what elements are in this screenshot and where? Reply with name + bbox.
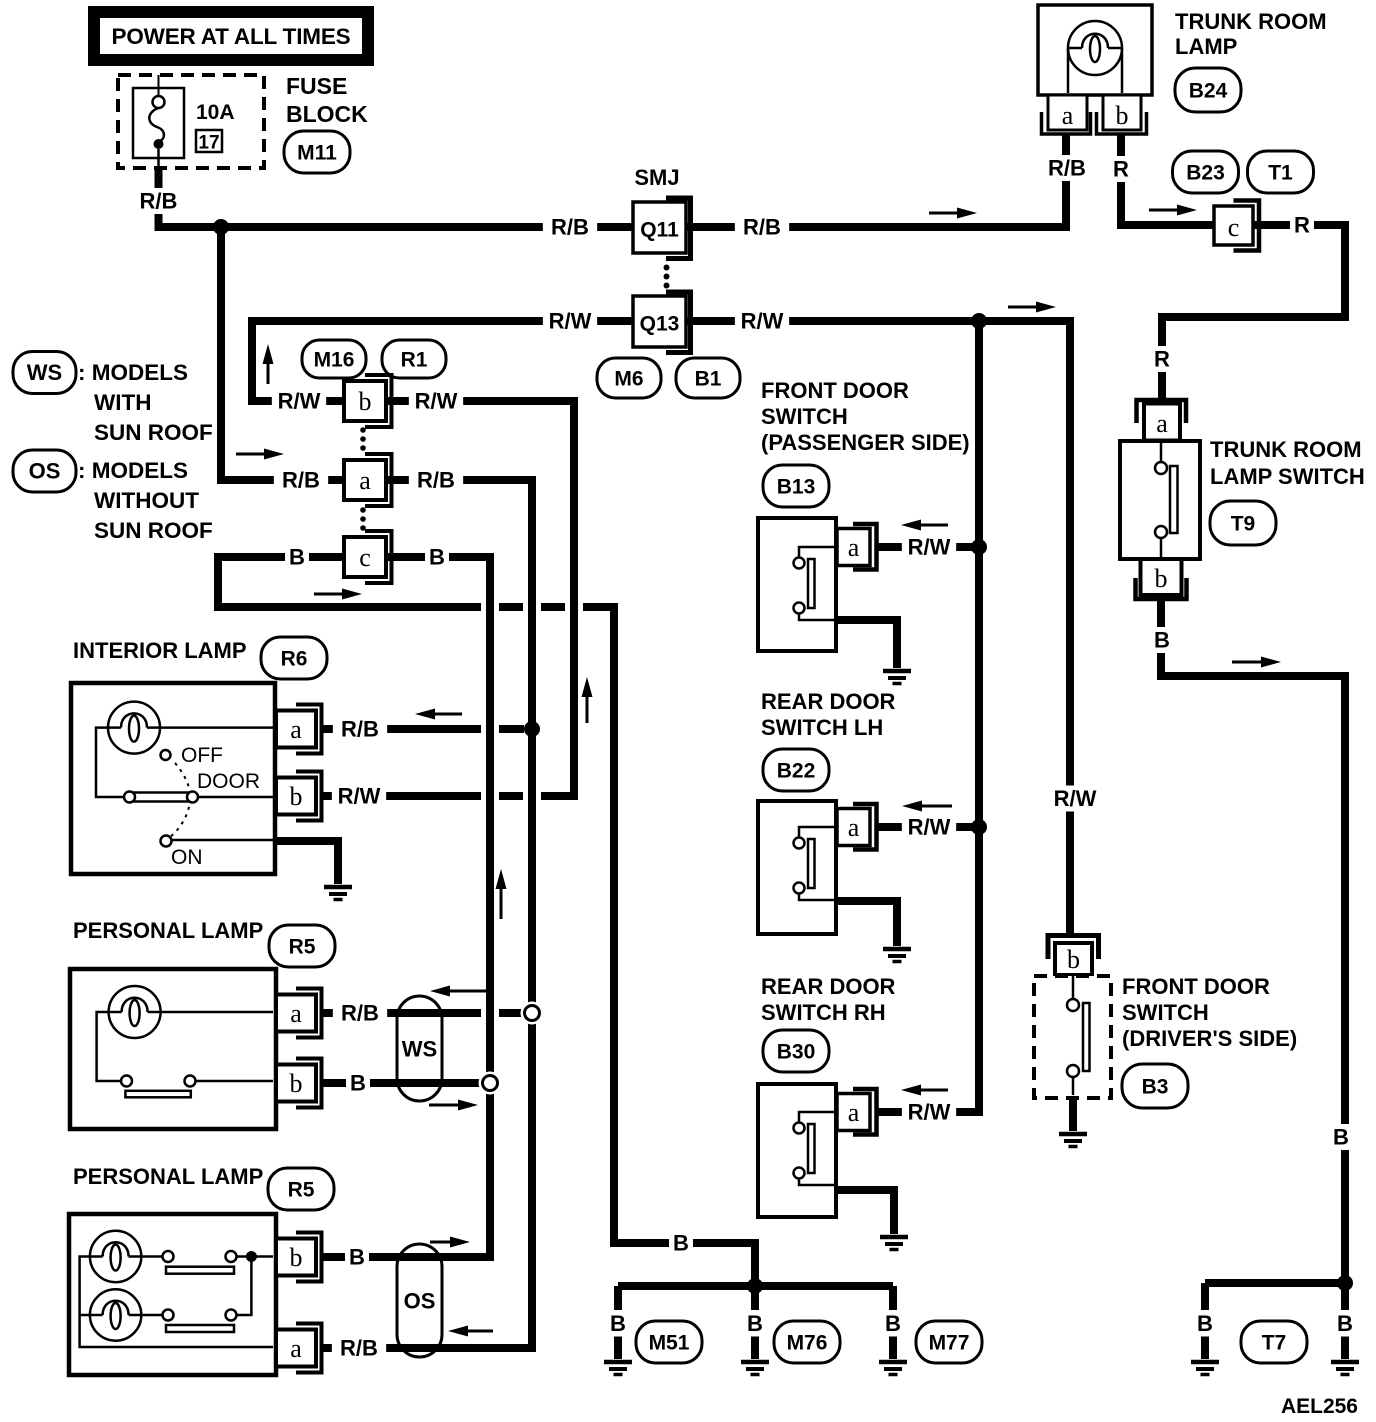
svg-text:FRONT DOOR: FRONT DOOR xyxy=(1122,974,1270,999)
svg-text:R/W: R/W xyxy=(741,309,784,334)
svg-text:a: a xyxy=(1156,409,1168,438)
svg-text:R/B: R/B xyxy=(417,468,455,493)
svg-text:WS: WS xyxy=(27,360,62,385)
svg-text:B: B xyxy=(673,1231,689,1256)
svg-text:a: a xyxy=(848,1098,860,1127)
svg-text:b: b xyxy=(290,1243,303,1272)
svg-text:ON: ON xyxy=(171,846,203,869)
svg-text:BLOCK: BLOCK xyxy=(286,101,368,127)
svg-text:SWITCH: SWITCH xyxy=(1122,1000,1209,1025)
svg-text:B23: B23 xyxy=(1186,162,1225,185)
svg-text:B13: B13 xyxy=(777,476,816,499)
svg-text:TRUNK ROOM: TRUNK ROOM xyxy=(1210,437,1362,462)
svg-text:M16: M16 xyxy=(314,349,355,372)
svg-text:(PASSENGER SIDE): (PASSENGER SIDE) xyxy=(761,430,970,455)
svg-text:M76: M76 xyxy=(787,1332,828,1355)
svg-text:M11: M11 xyxy=(297,142,337,165)
svg-text:OS: OS xyxy=(29,459,61,484)
svg-text:B: B xyxy=(747,1311,763,1336)
svg-text:R6: R6 xyxy=(281,648,308,671)
svg-text:B: B xyxy=(1337,1311,1353,1336)
svg-text:SWITCH: SWITCH xyxy=(761,404,848,429)
svg-text:: MODELS: : MODELS xyxy=(78,458,188,483)
svg-text:a: a xyxy=(359,466,371,495)
svg-text:B24: B24 xyxy=(1189,80,1228,103)
svg-text:b: b xyxy=(1116,101,1129,130)
svg-text:a: a xyxy=(1062,101,1074,130)
svg-text:B: B xyxy=(1197,1311,1213,1336)
svg-text:SUN ROOF: SUN ROOF xyxy=(94,518,213,543)
svg-text:R/W: R/W xyxy=(1054,786,1097,811)
svg-text:R/B: R/B xyxy=(340,1336,378,1361)
svg-text:M77: M77 xyxy=(929,1332,970,1355)
svg-text:B: B xyxy=(1154,628,1170,653)
svg-text:R/B: R/B xyxy=(341,717,379,742)
svg-text:a: a xyxy=(290,999,302,1028)
svg-text:R/W: R/W xyxy=(549,309,592,334)
svg-text:b: b xyxy=(359,387,372,416)
svg-text:17: 17 xyxy=(198,133,219,154)
svg-text:R: R xyxy=(1294,213,1310,238)
svg-text:M51: M51 xyxy=(649,1332,690,1355)
svg-text:B: B xyxy=(429,545,445,570)
svg-text:T7: T7 xyxy=(1262,1332,1287,1355)
svg-text:T9: T9 xyxy=(1231,513,1256,536)
svg-text:R/W: R/W xyxy=(278,389,321,414)
svg-text:R5: R5 xyxy=(288,1179,315,1202)
svg-text:WITHOUT: WITHOUT xyxy=(94,488,199,513)
svg-text:TRUNK ROOM: TRUNK ROOM xyxy=(1175,9,1327,34)
svg-text:FUSE: FUSE xyxy=(286,73,347,99)
svg-text:a: a xyxy=(290,1334,302,1363)
svg-text:INTERIOR LAMP: INTERIOR LAMP xyxy=(73,638,247,663)
svg-text:AEL256: AEL256 xyxy=(1281,1395,1358,1418)
svg-text:SMJ: SMJ xyxy=(634,165,679,190)
svg-text:LAMP: LAMP xyxy=(1175,34,1237,59)
svg-text:b: b xyxy=(290,1069,303,1098)
svg-text:R: R xyxy=(1113,157,1129,182)
svg-text:R/W: R/W xyxy=(415,389,458,414)
svg-text:10A: 10A xyxy=(196,101,235,124)
svg-text:POWER AT ALL TIMES: POWER AT ALL TIMES xyxy=(112,24,351,49)
svg-text:R5: R5 xyxy=(289,936,316,959)
svg-text:R/B: R/B xyxy=(743,215,781,240)
svg-text:Q11: Q11 xyxy=(640,219,679,242)
svg-text:M6: M6 xyxy=(614,368,643,391)
svg-text:DOOR: DOOR xyxy=(197,770,260,793)
svg-text:a: a xyxy=(290,715,302,744)
svg-text:R/B: R/B xyxy=(1048,156,1086,181)
svg-text:R/B: R/B xyxy=(140,189,178,214)
svg-text:B3: B3 xyxy=(1142,1076,1169,1099)
svg-text:B: B xyxy=(610,1311,626,1336)
svg-text:B: B xyxy=(350,1071,366,1096)
svg-text:SWITCH LH: SWITCH LH xyxy=(761,715,883,740)
svg-text:a: a xyxy=(848,813,860,842)
svg-text:b: b xyxy=(1067,945,1080,974)
svg-text:SWITCH RH: SWITCH RH xyxy=(761,1000,886,1025)
svg-text:T1: T1 xyxy=(1268,162,1293,185)
svg-text:R1: R1 xyxy=(401,349,428,372)
svg-text:B22: B22 xyxy=(777,760,816,783)
svg-text:(DRIVER'S SIDE): (DRIVER'S SIDE) xyxy=(1122,1026,1297,1051)
svg-text:b: b xyxy=(1155,564,1168,593)
svg-text:B: B xyxy=(349,1245,365,1270)
svg-text:R/W: R/W xyxy=(908,1100,951,1125)
svg-text:REAR DOOR: REAR DOOR xyxy=(761,974,896,999)
svg-text:R/W: R/W xyxy=(908,815,951,840)
svg-text:R/B: R/B xyxy=(282,468,320,493)
svg-text:OFF: OFF xyxy=(181,744,223,767)
svg-text:R/W: R/W xyxy=(908,535,951,560)
svg-text:R/B: R/B xyxy=(341,1001,379,1026)
svg-text:PERSONAL LAMP: PERSONAL LAMP xyxy=(73,1164,263,1189)
svg-text:REAR DOOR: REAR DOOR xyxy=(761,689,896,714)
svg-text:c: c xyxy=(1228,213,1240,242)
svg-text:WS: WS xyxy=(402,1037,437,1062)
svg-text:: MODELS: : MODELS xyxy=(78,360,188,385)
svg-text:PERSONAL LAMP: PERSONAL LAMP xyxy=(73,918,263,943)
svg-text:R/W: R/W xyxy=(338,784,381,809)
svg-text:R/B: R/B xyxy=(551,215,589,240)
svg-text:c: c xyxy=(359,543,371,572)
svg-text:B30: B30 xyxy=(777,1041,816,1064)
svg-text:R: R xyxy=(1154,347,1170,372)
svg-text:WITH: WITH xyxy=(94,390,151,415)
svg-text:OS: OS xyxy=(404,1289,436,1314)
svg-text:a: a xyxy=(848,533,860,562)
svg-text:B1: B1 xyxy=(695,368,722,391)
svg-text:FRONT DOOR: FRONT DOOR xyxy=(761,378,909,403)
svg-text:B: B xyxy=(885,1311,901,1336)
svg-text:B: B xyxy=(289,545,305,570)
svg-text:SUN ROOF: SUN ROOF xyxy=(94,420,213,445)
svg-text:B: B xyxy=(1333,1125,1349,1150)
svg-text:LAMP SWITCH: LAMP SWITCH xyxy=(1210,464,1365,489)
svg-text:b: b xyxy=(290,782,303,811)
svg-text:Q13: Q13 xyxy=(640,313,680,336)
